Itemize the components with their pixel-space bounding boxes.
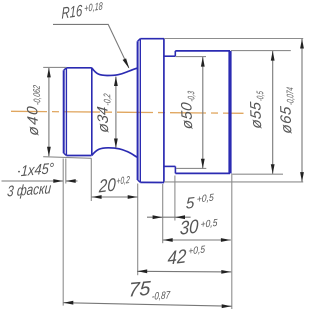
svg-text:75: 75 [128, 278, 152, 302]
arrows 20 [92, 195, 102, 199]
dim line phi50 [202, 57, 204, 168]
arrows 75 [64, 301, 74, 305]
svg-text:5: 5 [186, 195, 195, 213]
leader line R16 [53, 24, 129, 67]
svg-text:R16: R16 [62, 2, 83, 23]
svg-text:ø55: ø55 [247, 101, 265, 130]
svg-text:+0,5: +0,5 [197, 192, 215, 205]
ext 5/30-dim at flange right [162, 184, 164, 243]
relief groove right wall top [174, 51, 176, 56]
flange left face [137, 41, 139, 180]
ext 75-dim left [62, 159, 64, 306]
svg-text:3 фаски: 3 фаски [7, 180, 53, 200]
text phi55 [247, 90, 267, 130]
edge line at neck groove start [91, 68, 93, 156]
svg-text:-0,2: -0,2 [102, 93, 113, 107]
arrows phi50 [201, 57, 205, 67]
ext chamfer-dim right [65, 159, 67, 184]
ext phi50 top [176, 56, 206, 58]
right end face [228, 51, 231, 173]
phi40 top edge [66, 67, 91, 69]
svg-text:-0,3: -0,3 [186, 90, 197, 102]
ext right end [231, 175, 233, 309]
relief groove top edge [164, 55, 175, 57]
dim line 5 [147, 216, 191, 218]
svg-text:30: 30 [180, 216, 199, 239]
arrows phi65 [300, 39, 304, 49]
ext phi55 top [231, 50, 291, 52]
relief groove bottom edge [164, 165, 176, 167]
dim line chamfer 1x45 [2, 180, 63, 182]
svg-text:-0,062: -0,062 [32, 84, 44, 106]
text phi34 [94, 92, 115, 134]
ext phi55 bottom [231, 173, 283, 175]
arrows phi55 [271, 51, 275, 61]
chamfer top-left [64, 68, 67, 70]
neck groove top curve [92, 68, 138, 76]
text phi40 [23, 84, 44, 137]
chamfer bottom-left [64, 153, 67, 155]
svg-text:-0,5: -0,5 [255, 90, 266, 102]
arrows phi34 [114, 76, 118, 86]
ext phi50 bottom [176, 167, 206, 169]
svg-text:ø50: ø50 [178, 101, 196, 130]
arrows chamfer dim [53, 179, 63, 183]
relief groove right wall bottom [174, 166, 176, 173]
text phi50 [178, 90, 199, 131]
ext 5-dim right [174, 176, 176, 221]
svg-text:ø65: ø65 [277, 105, 295, 134]
svg-text:-0,87: -0,87 [151, 289, 171, 303]
ext 20-dim left [90, 158, 92, 201]
dim line phi40 [48, 68, 50, 156]
phi55 top edge [175, 50, 230, 52]
flange chamfer top [138, 39, 141, 42]
phi55 bottom edge [175, 172, 230, 174]
dot before 1x45 [18, 171, 20, 173]
flange chamfer bottom [138, 180, 141, 182]
dim line phi65 [301, 39, 303, 182]
left end face of shaft [63, 70, 65, 153]
dim line 30 [163, 239, 231, 241]
arrows 42 [137, 269, 147, 273]
ext phi40 bottom [43, 157, 91, 159]
svg-text:+0,18: +0,18 [84, 0, 103, 15]
dim line 20 [91, 196, 137, 198]
svg-text:+0,2: +0,2 [116, 175, 130, 188]
chamfer edge line left end [65, 68, 67, 156]
svg-text:-0,074: -0,074 [285, 87, 297, 106]
dim line phi55 [272, 51, 274, 174]
ext 20/42-dim at flange left [137, 184, 139, 276]
svg-text:42: 42 [167, 246, 186, 269]
flange right face [163, 39, 165, 183]
svg-text:+0,5: +0,5 [200, 218, 217, 231]
flange chamfer edge line [139, 39, 141, 183]
centerline [11, 111, 244, 113]
arrow R16 leader [123, 58, 130, 68]
svg-text:ø34: ø34 [94, 106, 112, 134]
neck groove bottom curve [92, 148, 138, 158]
flange top edge [140, 38, 164, 40]
arrows 5 [153, 215, 163, 219]
dim line 75 [63, 303, 231, 307]
phi40 bottom edge [66, 155, 91, 157]
svg-text:ø40: ø40 [24, 105, 42, 136]
dim line 42 [137, 270, 231, 273]
text phi65 [277, 86, 298, 135]
svg-text:1x45°: 1x45° [20, 160, 54, 180]
arrows 30 [163, 238, 173, 242]
ext phi65 top [164, 38, 303, 40]
ext line phi40 top [43, 66, 66, 68]
svg-text:20: 20 [98, 174, 116, 196]
arrows phi40 [47, 68, 51, 78]
dim line phi34 [115, 77, 117, 148]
ext phi65 bottom [164, 181, 303, 183]
flange bottom edge [140, 181, 164, 183]
svg-text:+0,5: +0,5 [188, 244, 205, 257]
